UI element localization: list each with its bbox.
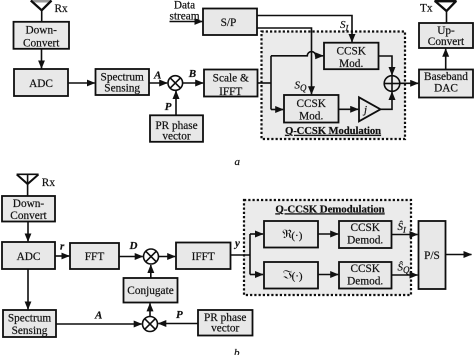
wire Conjugate to multiplier (b1) (150, 265, 152, 278)
svg-text:A: A (153, 70, 161, 82)
svg-text:y: y (233, 238, 240, 250)
wire FFT to multiplier (b1) (119, 256, 143, 258)
svg-text:Q-CCSK Demodulation: Q-CCSK Demodulation (275, 203, 384, 215)
wire Down-Convert to ADC (b) (27, 222, 29, 242)
svg-text:Spectrum: Spectrum (8, 313, 52, 325)
svg-text:Rx: Rx (55, 3, 69, 15)
block Down-Convert (a) (14, 22, 70, 50)
wire multiplier to Scale IFFT (a) (183, 82, 204, 84)
svg-text:A: A (94, 310, 102, 322)
block PR phase vector (a) (150, 115, 203, 142)
svg-text:vector: vector (211, 322, 239, 334)
wire Re to CCSK Demod top (318, 233, 338, 235)
svg-text:Down-: Down- (13, 198, 45, 210)
wire PR phase vector to multiplier (b2) (158, 323, 197, 325)
svg-text:Sensing: Sensing (12, 325, 48, 337)
wire IFFT into dashed box branch (231, 254, 250, 256)
svg-text:B: B (188, 68, 196, 80)
svg-text:Conjugate: Conjugate (127, 285, 173, 297)
wire ADC to FFT (55, 255, 69, 257)
wire Spectrum Sensing to multiplier (b2) (56, 323, 142, 325)
wire j amplifier to adder (381, 92, 393, 109)
wire ADC to Spectrum Sensing (a) (68, 82, 95, 84)
svg-text:Demod.: Demod. (347, 275, 383, 287)
svg-text:b: b (234, 347, 240, 355)
antenna Tx (435, 0, 457, 23)
svg-text:DAC: DAC (434, 83, 458, 95)
svg-text:Down-: Down- (26, 25, 58, 37)
block Baseband DAC (419, 70, 473, 98)
svg-text:ADC: ADC (17, 251, 41, 263)
wire Data stream to S/P (170, 21, 203, 23)
svg-text:CCSK: CCSK (336, 46, 366, 58)
block Spectrum Sensing (b) (3, 310, 56, 337)
svg-text:D: D (129, 240, 138, 252)
dashed group box Q-CCSK Modulation (262, 32, 406, 140)
block P/S (419, 221, 446, 289)
wire CCSK Demod top to P/S (392, 234, 418, 236)
multiplier X2 (b) (144, 249, 159, 264)
svg-text:Q-CCSK Modulation: Q-CCSK Modulation (285, 125, 381, 137)
svg-text:Convert: Convert (428, 36, 465, 48)
svg-text:r: r (60, 240, 65, 252)
block CCSK Mod top (324, 43, 379, 70)
svg-text:CCSK: CCSK (350, 222, 380, 234)
svg-text:CCSK: CCSK (296, 98, 326, 110)
svg-text:Demod.: Demod. (347, 234, 383, 246)
svg-text:IFFT: IFFT (219, 86, 242, 98)
svg-text:CCSK: CCSK (350, 263, 380, 275)
block Spectrum Sensing (a) (96, 69, 150, 95)
svg-text:a: a (235, 156, 241, 168)
wire Baseband DAC to Up-Convert (445, 49, 447, 70)
wire branch to Re box (250, 233, 263, 235)
dashed group box Q-CCSK Demodulation (244, 200, 411, 295)
multiplier X3 (b) (143, 317, 158, 332)
wire S_Q from S/P to bottom CCSK Mod (257, 28, 312, 94)
svg-text:(·): (·) (292, 271, 303, 283)
wire adder to Baseband DAC (400, 82, 418, 84)
wire bottom CCSK Mod to j amplifier (339, 108, 359, 110)
wire Scale IFFT into dashed box branch (258, 82, 272, 84)
svg-text:P/S: P/S (424, 250, 440, 262)
svg-text:(·): (·) (291, 230, 302, 242)
adder (a) (384, 76, 400, 92)
amplifier j (359, 97, 381, 121)
svg-text:Convert: Convert (23, 38, 60, 50)
wire S_I from S/P to top CCSK Mod (257, 16, 352, 43)
svg-text:Rx: Rx (42, 177, 56, 189)
block IFFT (176, 243, 231, 270)
svg-text:ADC: ADC (29, 78, 53, 90)
antenna Rx (b) (17, 174, 39, 196)
block Conjugate (124, 278, 178, 303)
svg-text:SI: SI (340, 19, 350, 32)
block S/P (203, 9, 257, 36)
wire multiplier to IFFT (159, 256, 176, 258)
svg-text:Scale &: Scale & (213, 73, 249, 85)
wire Spectrum Sensing to multiplier (a) (149, 82, 167, 84)
wire Down-Convert to ADC (a) (41, 49, 43, 69)
wire CCSK Demod bottom to P/S (392, 274, 418, 276)
svg-text:Convert: Convert (10, 210, 47, 222)
svg-text:Mod.: Mod. (339, 58, 363, 70)
block Down-Convert (b) (2, 196, 55, 222)
svg-text:P: P (165, 101, 172, 113)
wire P/S output (446, 254, 472, 256)
svg-text:Tx: Tx (420, 3, 433, 15)
wire PR phase vector to multiplier (a) (175, 91, 177, 115)
wire branch to bottom CCSK Mod (271, 109, 283, 111)
wire Im to CCSK Demod bottom (318, 274, 338, 276)
svg-text:S/P: S/P (221, 17, 237, 29)
svg-text:Baseband: Baseband (424, 71, 468, 83)
block Re(.) (264, 221, 318, 248)
block CCSK Mod bottom (284, 95, 339, 123)
multiplier X1 (a) (168, 76, 183, 91)
wire multiplier (b2) to Conjugate (149, 303, 151, 316)
block ADC (a) (14, 69, 68, 96)
block FFT (70, 243, 119, 269)
block Scale and IFFT (a) (204, 70, 258, 99)
block PR phase vector (b) (198, 310, 253, 336)
svg-text:vector: vector (162, 130, 190, 142)
block Up-Convert (a) (419, 23, 473, 48)
wire top CCSK Mod to adder (379, 56, 393, 75)
block Im(.) (264, 262, 318, 289)
svg-text:Sensing: Sensing (104, 82, 140, 94)
block CCSK Demod top (339, 221, 392, 248)
wire branch to top CCSK Mod with hop over S_Q (271, 52, 323, 56)
svg-text:IFFT: IFFT (192, 251, 215, 263)
wire branch to Im box (250, 274, 263, 276)
svg-text:FFT: FFT (85, 251, 105, 263)
block ADC (b) (2, 242, 55, 269)
wire ADC down to Spectrum Sensing (b) (27, 269, 29, 309)
antenna Rx (a) (31, 0, 52, 22)
wire branch vertical (b) (249, 234, 251, 275)
wire branch vertical (270, 56, 272, 110)
block CCSK Demod bottom (339, 262, 392, 289)
svg-text:Mod.: Mod. (299, 111, 323, 123)
svg-text:P: P (176, 309, 183, 321)
